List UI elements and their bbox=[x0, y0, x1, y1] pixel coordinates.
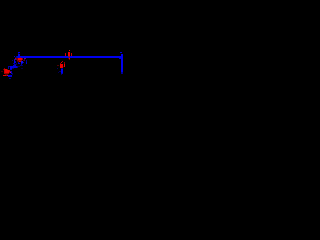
wire W7: right vertical drop of bus bbox=[121, 54, 123, 74]
wire W5: vertical wire into bottom-left component bbox=[8, 66, 14, 75]
ground GND1: bottom-left ground bars bbox=[8, 75, 12, 79]
component U1: red symbol standing on bus (center) bbox=[65, 50, 72, 56]
component C1: blue value text "5uF" of left capacitor bbox=[12, 56, 27, 69]
node: isolated terminal dot left of bus bbox=[14, 56, 15, 57]
current source I1: red arrow symbol below bus bbox=[60, 61, 65, 64]
diode D1: red arrow/body symbol bottom-left bbox=[1, 68, 10, 75]
wire W6: vertical wire below I1 bbox=[57, 68, 63, 75]
node: tick above right corner bbox=[120, 52, 122, 53]
component C1: red designator text of left capacitor bbox=[15, 57, 26, 62]
node: red cathode bar of D1 bbox=[3, 75, 8, 76]
wire W1: main horizontal bus net bbox=[16, 56, 121, 58]
node: stub left of right vertical bbox=[119, 58, 121, 59]
wire W2: left vertical stub joining bus at left end bbox=[18, 52, 20, 56]
node: I1 body bars bbox=[57, 64, 65, 68]
node: U1 junction dot on bus bbox=[68, 56, 70, 60]
wire W4: lower-left horizontal wire segment bbox=[8, 66, 20, 68]
